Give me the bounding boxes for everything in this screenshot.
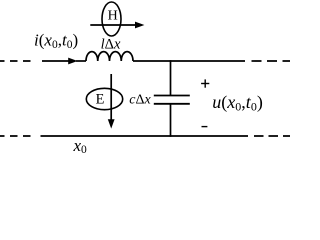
wire: top-left dashed continuation — [0, 60, 33, 62]
svg-text:cΔx: cΔx — [129, 92, 151, 107]
H field arrow — [90, 22, 144, 29]
svg-text:H: H — [108, 9, 118, 24]
label - polarity — [202, 126, 208, 128]
wire: capacitor bottom lead — [170, 104, 172, 137]
wire: bottom-left dashed continuation — [0, 135, 33, 137]
wire: top-right dashed continuation — [252, 60, 293, 62]
capacitor C1 cΔx — [154, 96, 190, 104]
wire: capacitor top lead — [170, 60, 172, 95]
svg-text:lΔx: lΔx — [101, 36, 121, 52]
wire: bottom-right dashed continuation — [254, 135, 292, 137]
wire: top conductor into inductor — [76, 60, 86, 62]
current arrow i — [42, 58, 78, 65]
svg-text:E: E — [96, 92, 105, 108]
H field loop around conductor — [102, 2, 121, 36]
E field arrow — [108, 74, 115, 129]
E field loop — [86, 88, 122, 109]
inductor L1 lΔx — [86, 52, 133, 61]
label + polarity — [201, 79, 209, 87]
wire: bottom conductor — [41, 135, 249, 137]
wire: top conductor to node — [133, 60, 245, 62]
